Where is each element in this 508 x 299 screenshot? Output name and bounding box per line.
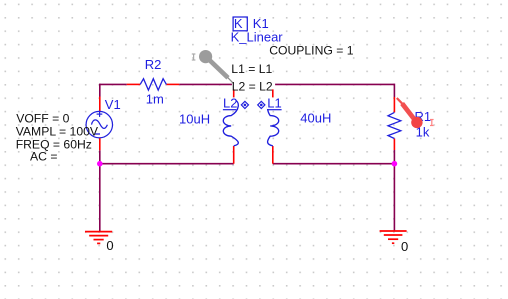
svg-text:VAMPL = 100V: VAMPL = 100V [16, 125, 99, 139]
svg-text:L2 = L2: L2 = L2 [232, 79, 273, 93]
svg-text:K: K [234, 16, 243, 31]
svg-text:1m: 1m [146, 92, 164, 107]
svg-text:V1: V1 [105, 97, 121, 112]
svg-text:0: 0 [401, 239, 408, 254]
svg-text:L2: L2 [223, 95, 237, 110]
svg-text:COUPLING = 1: COUPLING = 1 [269, 43, 354, 57]
svg-text:L1 = L1: L1 = L1 [231, 62, 272, 76]
svg-text:10uH: 10uH [179, 111, 210, 126]
svg-text:0: 0 [106, 238, 113, 253]
svg-text:R2: R2 [145, 57, 162, 72]
svg-text:40uH: 40uH [300, 111, 331, 126]
svg-text:L1: L1 [267, 95, 281, 110]
svg-text:AC =: AC = [30, 150, 57, 164]
svg-text:VOFF = 0: VOFF = 0 [16, 112, 69, 126]
